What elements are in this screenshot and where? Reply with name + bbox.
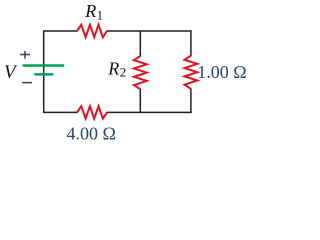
resistor 4.00 ohm (bottom)	[77, 106, 107, 118]
wire bottom (battery- to right branch)	[43, 111, 192, 113]
svg-text:R: R	[84, 1, 96, 21]
polarity &#8722;	[22, 82, 32, 84]
wire right branch (1.00 ohm)	[190, 30, 192, 113]
wire top (node battery+ to right branch)	[44, 30, 192, 32]
wire middle branch (R2)	[139, 30, 141, 112]
label R2	[107, 58, 126, 79]
resistor 1.00 ohm (right branch)	[185, 56, 198, 89]
svg-text:2: 2	[120, 65, 127, 80]
svg-text:1.00 Ω: 1.00 Ω	[197, 62, 246, 82]
svg-text:R: R	[107, 58, 119, 78]
battery V (plates)	[23, 66, 65, 75]
resistor R1 (top)	[77, 25, 107, 37]
wire left (battery branch)	[43, 30, 45, 113]
svg-text:1: 1	[97, 8, 104, 23]
polarity +	[20, 51, 30, 59]
resistor R2 (middle branch)	[134, 56, 147, 89]
label R1	[84, 1, 103, 22]
svg-text:4.00 Ω: 4.00 Ω	[67, 124, 116, 141]
